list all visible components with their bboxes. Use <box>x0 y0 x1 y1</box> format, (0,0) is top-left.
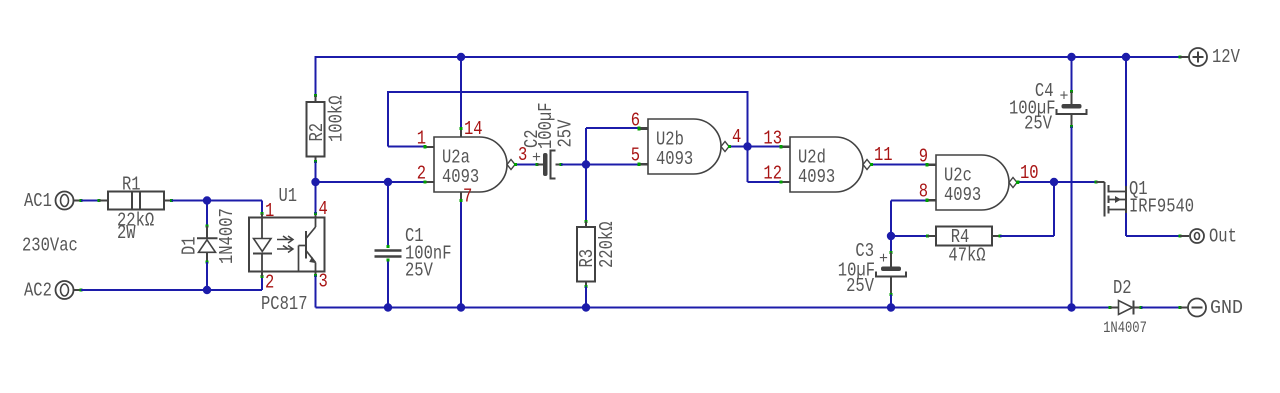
svg-text:6: 6 <box>631 110 640 132</box>
svg-text:D2: D2 <box>1113 277 1132 299</box>
svg-text:25V: 25V <box>1024 113 1052 135</box>
svg-text:1: 1 <box>265 200 274 222</box>
svg-text:10: 10 <box>1020 162 1039 184</box>
svg-text:R1: R1 <box>122 174 141 196</box>
svg-text:PC817: PC817 <box>261 293 308 315</box>
svg-text:1N4007: 1N4007 <box>1103 319 1147 337</box>
svg-text:3: 3 <box>319 271 328 293</box>
svg-text:2: 2 <box>417 163 426 185</box>
svg-text:14: 14 <box>464 118 483 140</box>
svg-text:2W: 2W <box>117 222 136 244</box>
svg-text:4093: 4093 <box>944 184 981 206</box>
svg-text:AC1: AC1 <box>24 190 52 212</box>
svg-text:5: 5 <box>631 145 640 167</box>
svg-text:4093: 4093 <box>798 166 835 188</box>
svg-text:25V: 25V <box>555 119 577 147</box>
svg-text:7: 7 <box>463 186 472 208</box>
svg-text:3: 3 <box>518 144 527 166</box>
svg-text:U1: U1 <box>279 185 298 207</box>
svg-text:230Vac: 230Vac <box>22 235 78 257</box>
svg-text:4093: 4093 <box>442 166 479 188</box>
svg-text:D1: D1 <box>179 236 201 255</box>
svg-text:R3: R3 <box>576 249 598 268</box>
svg-text:+: + <box>532 149 541 167</box>
svg-text:220kΩ: 220kΩ <box>596 222 618 269</box>
svg-text:2: 2 <box>265 272 274 294</box>
svg-text:8: 8 <box>919 181 928 203</box>
svg-text:GND: GND <box>1210 297 1243 319</box>
svg-text:4: 4 <box>732 126 741 148</box>
svg-text:Out: Out <box>1209 226 1237 248</box>
svg-text:+: + <box>879 250 888 268</box>
svg-text:47kΩ: 47kΩ <box>948 245 985 267</box>
svg-text:4093: 4093 <box>656 148 693 170</box>
svg-text:12: 12 <box>763 163 782 185</box>
svg-text:25V: 25V <box>405 260 433 282</box>
svg-text:AC2: AC2 <box>24 280 52 302</box>
svg-text:1N4007: 1N4007 <box>216 208 238 264</box>
svg-text:4: 4 <box>319 198 328 220</box>
svg-text:11: 11 <box>874 144 893 166</box>
svg-text:9: 9 <box>919 146 928 168</box>
svg-text:13: 13 <box>763 128 782 150</box>
svg-text:100kΩ: 100kΩ <box>326 96 348 143</box>
svg-text:12V: 12V <box>1212 46 1240 68</box>
svg-text:IRF9540: IRF9540 <box>1129 196 1194 218</box>
svg-text:25V: 25V <box>846 275 874 297</box>
svg-text:+: + <box>1060 88 1069 106</box>
svg-text:1: 1 <box>417 128 426 150</box>
